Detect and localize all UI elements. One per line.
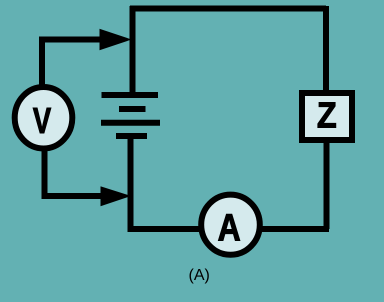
ammeter A (circle) xyxy=(201,195,260,255)
impedance Z (box) xyxy=(302,93,352,140)
wire: right vertical from Z box to bottom corner xyxy=(324,142,330,229)
battery plate short xyxy=(119,106,146,112)
battery plate short bottom xyxy=(116,133,147,139)
wire: left vertical from battery bottom to bottom corner xyxy=(128,137,134,232)
wire: bottom horizontal right segment (corner to ammeter) xyxy=(261,226,329,232)
battery B1 xyxy=(101,95,160,136)
wire: voltmeter bottom lead (down and right with arrow) xyxy=(45,149,105,196)
voltmeter V (circle) xyxy=(15,87,73,149)
svg-text:V: V xyxy=(33,101,52,142)
arrowhead into top-left node xyxy=(100,30,130,50)
wire: voltmeter top lead (up and right with arrow) xyxy=(42,40,104,87)
wire: bottom horizontal left segment (ammeter to left corner) xyxy=(128,226,200,232)
wire: left vertical from top wire to battery top plate xyxy=(130,6,136,94)
svg-text:A: A xyxy=(218,207,241,249)
arrowhead into bottom-left node xyxy=(101,187,130,206)
svg-text:Z: Z xyxy=(317,96,337,136)
svg-text:(A): (A) xyxy=(189,267,210,284)
wire: right vertical from top wire to Z box xyxy=(323,6,329,91)
wire: top horizontal of main loop xyxy=(130,6,326,12)
battery plate long xyxy=(101,120,160,126)
battery plate long top xyxy=(102,92,159,98)
